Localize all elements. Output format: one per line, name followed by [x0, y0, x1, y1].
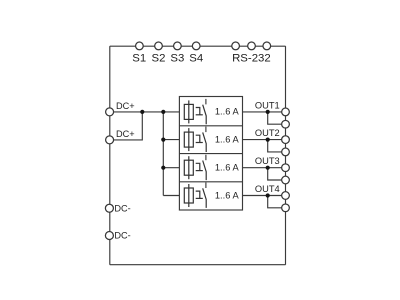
svg-text:RS-232: RS-232	[232, 53, 271, 65]
contact switch channel 3	[196, 161, 207, 181]
wire branch channel 2	[163, 139, 179, 141]
terminal OUT3 upper	[282, 164, 290, 172]
node junction OUT3	[266, 166, 270, 170]
terminal S1	[136, 42, 144, 50]
svg-text:S2: S2	[152, 53, 166, 65]
fuse F1	[184, 100, 193, 123]
terminal RS-232 pin 3	[263, 42, 271, 50]
actuator dash channel 3	[205, 155, 207, 161]
contact switch channel 4	[196, 188, 207, 208]
svg-text:OUT2: OUT2	[255, 128, 280, 138]
wire output stub OUT2 lower	[268, 140, 282, 152]
breaker module divider 3	[179, 181, 242, 183]
terminal OUT2 lower	[282, 148, 290, 156]
breaker module divider 1	[179, 125, 242, 127]
svg-text:S3: S3	[170, 53, 184, 65]
wire output channel 2	[243, 139, 282, 141]
node junction bus channel 2	[161, 138, 165, 142]
terminal OUT2 upper	[282, 136, 290, 144]
terminal S4	[192, 42, 200, 50]
svg-text:DC+: DC+	[116, 101, 135, 111]
wire right side of outline	[285, 46, 287, 265]
svg-text:DC-: DC-	[114, 231, 130, 241]
terminal OUT1 upper	[282, 108, 290, 116]
actuator dash channel 2	[205, 127, 207, 133]
fuse F2	[184, 128, 193, 151]
svg-text:OUT3: OUT3	[255, 156, 280, 166]
wire top side of outline	[110, 45, 286, 47]
actuator dash channel 1	[205, 99, 207, 105]
svg-text:OUT1: OUT1	[255, 100, 280, 110]
node junction bus channel 3	[161, 166, 165, 170]
wire distribution bus vertical	[162, 112, 164, 196]
wire output stub OUT1 lower	[268, 112, 282, 124]
terminal OUT4 upper	[282, 192, 290, 200]
wire output stub OUT4 lower	[268, 196, 282, 208]
node junction OUT2	[266, 138, 270, 142]
contact switch channel 1	[196, 105, 207, 125]
terminal OUT4 lower	[282, 204, 290, 212]
svg-text:1..6 A: 1..6 A	[215, 190, 240, 200]
wire bottom side of outline	[110, 264, 286, 266]
breaker module divider 2	[179, 153, 242, 155]
wire branch channel 3	[163, 167, 179, 169]
svg-text:1..6 A: 1..6 A	[215, 134, 240, 144]
svg-text:1..6 A: 1..6 A	[215, 107, 240, 117]
terminal OUT1 lower	[282, 120, 290, 128]
wire output channel 3	[243, 167, 282, 169]
terminal DC+ 2	[106, 136, 114, 144]
svg-text:1..6 A: 1..6 A	[215, 163, 240, 173]
fuse F3	[184, 156, 193, 179]
node junction OUT4	[266, 193, 270, 197]
terminal S2	[155, 42, 163, 50]
contact switch channel 2	[196, 132, 207, 152]
terminal DC- 2	[105, 232, 113, 240]
svg-text:DC+: DC+	[116, 129, 135, 139]
svg-text:S4: S4	[189, 53, 203, 65]
fuse F4	[184, 184, 193, 207]
terminal S3	[174, 42, 182, 50]
node junction OUT1	[266, 110, 270, 114]
wire branch channel 4	[163, 195, 179, 197]
terminal DC+ 1	[106, 108, 114, 116]
actuator dash channel 4	[205, 183, 207, 189]
svg-text:OUT4: OUT4	[255, 184, 280, 194]
wire output channel 1	[243, 111, 282, 113]
svg-text:DC-: DC-	[114, 203, 130, 213]
terminal OUT3 lower	[282, 176, 290, 184]
wire left side of outline	[109, 46, 111, 265]
terminal DC- 1	[105, 204, 113, 212]
wire output stub OUT3 lower	[268, 168, 282, 180]
terminal RS-232 pin 1	[232, 42, 240, 50]
wire output channel 4	[243, 195, 282, 197]
node junction bus top	[161, 110, 165, 114]
svg-text:S1: S1	[132, 53, 146, 65]
breaker module outline	[179, 97, 242, 211]
wire DC+ input channel 1	[114, 111, 180, 113]
terminal RS-232 pin 2	[248, 42, 256, 50]
node junction DC+ link	[140, 110, 144, 114]
wire DC+ second terminal link	[114, 112, 143, 140]
